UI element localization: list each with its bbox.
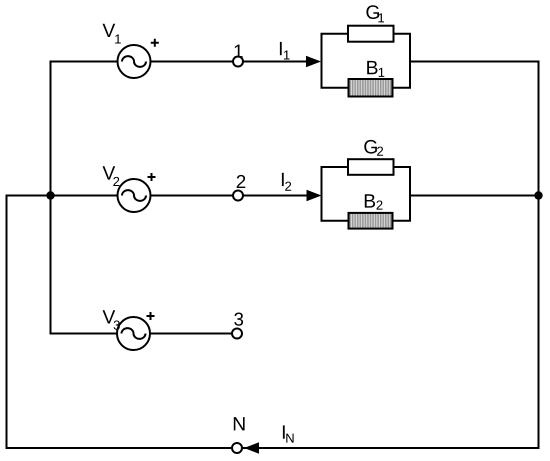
junction dot right bus row2 (534, 191, 542, 199)
label node 2 (237, 175, 246, 188)
wire right bus vertical (538, 61, 540, 450)
node 1 terminal (233, 57, 243, 67)
polarity plus of V1 (151, 39, 159, 47)
wire row3 left bus to V3 (50, 333, 117, 335)
node 2 terminal (233, 191, 243, 201)
conductance G2 (348, 159, 394, 175)
label node N (234, 417, 245, 430)
wire row3 V3 to node 3 (151, 333, 233, 335)
conductance G1 (348, 26, 394, 42)
wire row1 V1 to node 1 (151, 61, 233, 63)
wire row1 left bus to V1 (50, 61, 118, 63)
wire load 1 left branch (322, 34, 349, 88)
label B1 (367, 61, 384, 77)
wire load 1 right branch (393, 34, 410, 88)
arrow IN (244, 442, 259, 453)
junction dot left bus row2 (46, 191, 54, 199)
label G1 (366, 5, 384, 22)
wire load 2 output to right bus (409, 195, 539, 197)
node 3 terminal (232, 329, 242, 339)
wire bottom neutral left of node N (6, 447, 232, 449)
wire load 2 left branch (322, 167, 349, 221)
wire row2 V2 to node 2 (151, 195, 233, 197)
label B2 (365, 194, 383, 209)
label I1 (280, 42, 290, 60)
wire load 2 right branch (393, 167, 410, 221)
polarity plus of V3 (147, 312, 155, 320)
wire load 1 output to right bus (409, 61, 540, 63)
wire left bus vertical (50, 61, 52, 335)
label IN (283, 425, 294, 442)
susceptance B1 (349, 79, 393, 97)
label G2 (364, 140, 383, 156)
label V2 (103, 166, 120, 186)
label node 3 (234, 313, 243, 326)
label node 1 (235, 45, 243, 58)
label I2 (282, 173, 291, 191)
polarity plus of V2 (148, 173, 156, 181)
voltage source V2 (118, 179, 151, 212)
wire row2 node 2 to load 2 (243, 195, 308, 197)
wire row2 left bus to V2 (51, 195, 118, 197)
node N terminal (232, 443, 242, 453)
arrow I2 (307, 190, 322, 201)
voltage source V1 (118, 45, 151, 78)
label V1 (103, 24, 121, 44)
arrow I1 (306, 56, 321, 67)
label V3 (103, 310, 120, 330)
wire far-left horizontal from junction (7, 195, 52, 197)
voltage source V3 (117, 317, 150, 350)
susceptance B2 (349, 213, 393, 229)
wire far-left vertical (6, 195, 8, 450)
wire row1 node 1 to load 1 (243, 61, 308, 63)
wire bottom neutral right of node N (243, 447, 540, 449)
